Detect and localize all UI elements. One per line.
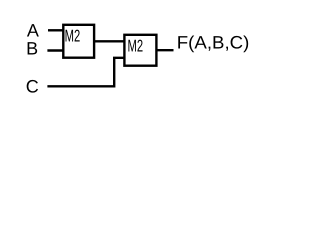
svg-text:F(A,B,C): F(A,B,C) (177, 32, 250, 52)
svg-text:M2: M2 (128, 36, 144, 55)
svg-text:B: B (26, 39, 38, 59)
wire C to U2 (with riser) (47, 58, 125, 87)
majority gate U1 box (63, 25, 94, 58)
svg-text:A: A (27, 20, 39, 40)
wire U2 output (156, 49, 174, 51)
wire B to U1 (47, 49, 64, 51)
wire U1 output to U2 input (94, 40, 125, 42)
majority gate U2 box (124, 35, 156, 66)
wire A to U1 (48, 29, 64, 31)
svg-text:C: C (26, 76, 39, 96)
svg-text:M2: M2 (65, 27, 81, 46)
